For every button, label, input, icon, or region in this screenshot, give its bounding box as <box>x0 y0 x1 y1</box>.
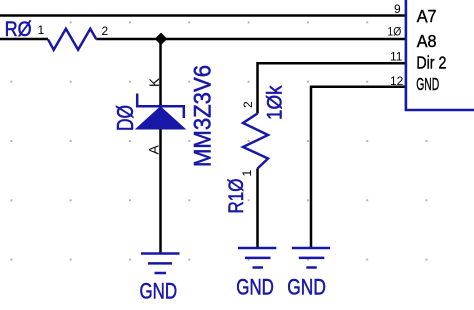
ground GND1 <box>141 254 180 274</box>
zener triangle anode <box>136 107 185 129</box>
svg-text:GND: GND <box>287 275 326 300</box>
svg-text:GND: GND <box>236 275 274 300</box>
svg-text:MM3Z3V6: MM3Z3V6 <box>190 65 217 167</box>
svg-text:A8: A8 <box>417 31 437 51</box>
svg-text:2: 2 <box>102 24 109 38</box>
svg-text:RØ: RØ <box>5 18 32 41</box>
zener diode D0 cathode bar <box>136 105 185 108</box>
wire net A7 (pin 9) <box>0 14 405 17</box>
svg-text:12: 12 <box>390 74 404 88</box>
ground GND2 <box>238 248 276 268</box>
svg-text:2: 2 <box>241 101 255 108</box>
grid dots (decorative) <box>10 21 427 260</box>
wire R0 pin2 to IC pin10 <box>96 38 405 41</box>
junction dot node A8/D0 <box>156 34 166 44</box>
svg-text:1Ø: 1Ø <box>388 25 402 39</box>
zener right tail <box>183 106 186 119</box>
IC bottom edge <box>405 109 474 112</box>
resistor R0 <box>48 29 96 50</box>
svg-text:R1Ø: R1Ø <box>225 179 248 214</box>
svg-text:K: K <box>147 78 162 87</box>
svg-text:1Øk: 1Øk <box>264 85 287 120</box>
wire R10 pin1 down to GND2 <box>256 169 259 249</box>
svg-text:11: 11 <box>390 49 403 63</box>
wire IC pin12 elbow down to GND3 <box>311 87 405 248</box>
zener left tail <box>136 94 139 108</box>
resistor R10 <box>243 114 268 169</box>
svg-text:A7: A7 <box>417 6 437 26</box>
IC U1 left edge <box>405 0 408 110</box>
svg-text:1: 1 <box>240 170 254 177</box>
wire net A8 left stub to R0 pin1 <box>0 38 48 41</box>
svg-text:Dir 2: Dir 2 <box>416 52 446 72</box>
svg-text:9: 9 <box>394 2 401 16</box>
svg-text:DØ: DØ <box>112 105 138 131</box>
ground GND3 <box>292 248 330 268</box>
svg-text:1: 1 <box>38 23 45 37</box>
wire IC pin11 to R10 (net Dir2) <box>258 63 406 113</box>
wire junction down to D0 cathode <box>159 39 162 106</box>
svg-text:GND: GND <box>416 74 439 94</box>
svg-text:GND: GND <box>140 279 178 304</box>
wire D0 anode down to GND1 <box>159 129 162 253</box>
svg-text:A: A <box>145 145 161 155</box>
